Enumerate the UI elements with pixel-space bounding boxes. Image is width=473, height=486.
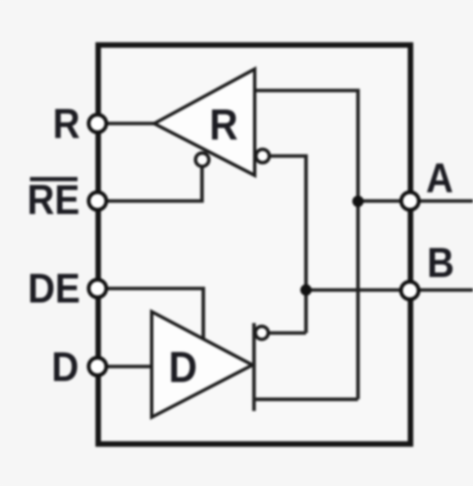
driver amp D triangle xyxy=(152,312,253,418)
receiver enable bubble xyxy=(196,153,209,166)
pin DE terminal circle xyxy=(89,280,107,298)
pin A terminal circle xyxy=(401,192,419,210)
wire D pin to driver input xyxy=(104,365,152,369)
junction node B xyxy=(300,284,311,295)
svg-text:R: R xyxy=(209,100,238,149)
receiver amp R triangle xyxy=(154,69,255,175)
IC body box U1 xyxy=(98,45,410,444)
driver output vertical bar xyxy=(252,323,256,411)
svg-text:DE: DE xyxy=(28,266,80,312)
pin RE terminal circle xyxy=(89,192,107,210)
svg-text:RE: RE xyxy=(27,177,79,223)
svg-text:D: D xyxy=(169,342,198,391)
wire receiver noninverting input from A node (top run and vertical) xyxy=(255,91,358,400)
wire driver noninverting output bottom run xyxy=(254,397,358,401)
svg-text:R: R xyxy=(53,101,80,147)
wire node B horizontal to pin B and out xyxy=(306,288,473,292)
pin R terminal circle xyxy=(89,115,107,133)
svg-text:D: D xyxy=(52,344,79,390)
junction node A xyxy=(352,196,363,207)
receiver inverting input bubble xyxy=(256,149,269,162)
pin D terminal circle xyxy=(89,358,107,376)
wire R pin to receiver output apex xyxy=(104,122,156,126)
pin B terminal circle xyxy=(401,282,419,300)
wire RE pin to receiver enable bubble xyxy=(104,160,202,201)
svg-text:B: B xyxy=(427,240,454,286)
wire receiver inverting input to B node xyxy=(268,156,306,333)
wire DE pin to driver enable xyxy=(104,289,203,342)
svg-text:A: A xyxy=(426,156,453,202)
overline of RE xyxy=(30,177,78,181)
wire node A horizontal to pin A and out xyxy=(358,199,473,203)
wire driver inverting output to B node xyxy=(268,331,306,335)
driver inverting output bubble xyxy=(255,326,268,339)
